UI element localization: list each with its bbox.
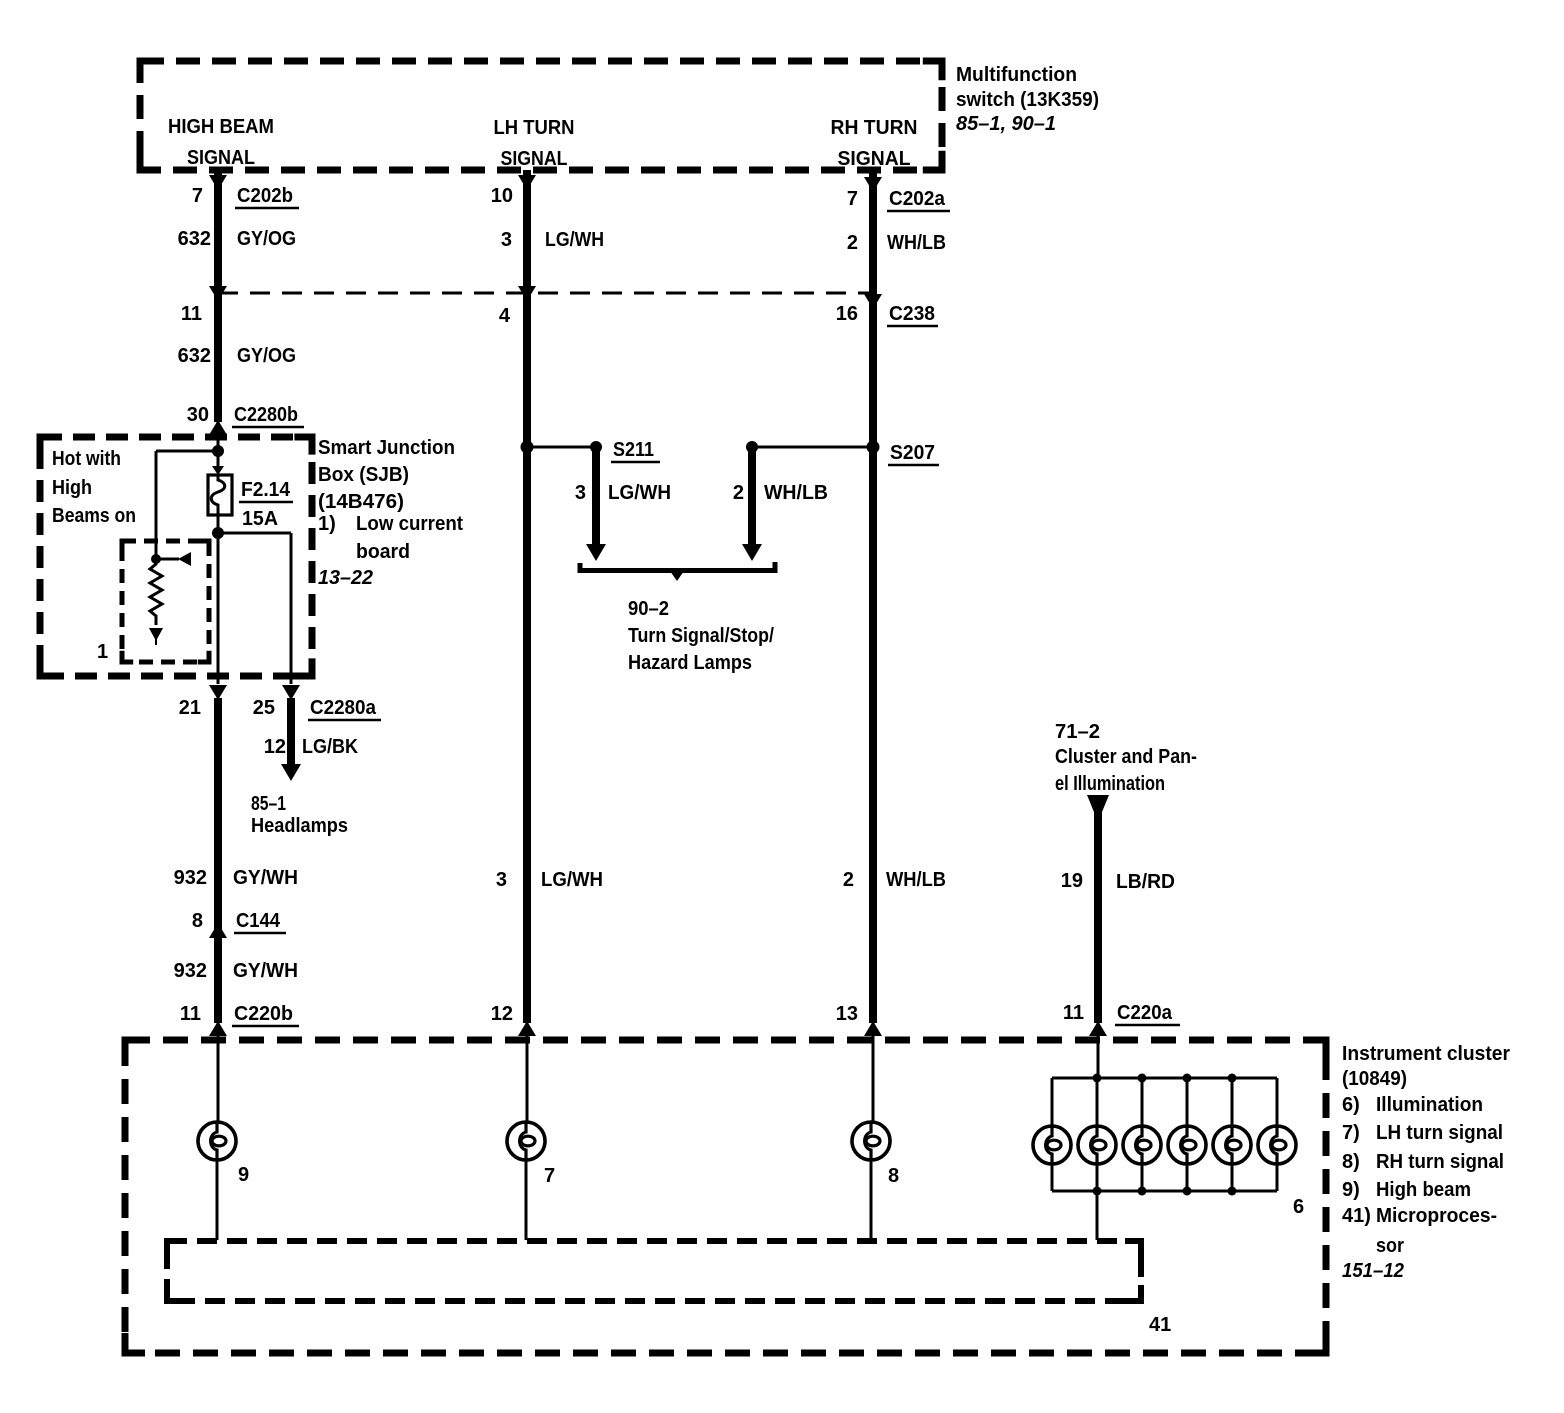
svg-text:GY/WH: GY/WH	[233, 867, 298, 889]
wire from lamp 9 to microprocessor	[216, 1160, 219, 1240]
label 85-1 Headlamps reference	[251, 793, 348, 837]
coil terminal arrow	[149, 628, 163, 645]
svg-text:HIGH BEAM: HIGH BEAM	[168, 116, 274, 138]
svg-text:S211: S211	[613, 439, 654, 461]
connector arrow at switch output pin 7	[209, 175, 227, 190]
label S207	[888, 442, 939, 465]
label F2.14 15A	[239, 479, 293, 530]
label 3 LG/WH	[501, 229, 604, 251]
svg-text:7): 7)	[1342, 1122, 1360, 1144]
svg-text:(10849): (10849)	[1342, 1068, 1407, 1090]
switch contact with triangle	[156, 552, 191, 566]
svg-text:GY/OG: GY/OG	[237, 345, 296, 367]
svg-text:RH turn signal: RH turn signal	[1376, 1151, 1504, 1173]
svg-text:11: 11	[1063, 1002, 1084, 1024]
lamp 6f illumination	[1258, 1126, 1296, 1164]
svg-text:19: 19	[1061, 870, 1083, 892]
svg-text:12: 12	[264, 736, 286, 758]
lamp 6d illumination	[1168, 1126, 1206, 1164]
label pin 8 and connector C144	[192, 910, 286, 933]
svg-text:LH TURN: LH TURN	[494, 117, 575, 139]
label S211	[611, 439, 660, 462]
connector arrow at switch output pin 7 RH	[864, 177, 882, 192]
svg-text:S207: S207	[890, 442, 935, 464]
node S211 splice junction	[521, 441, 603, 454]
lamp 8 RH turn indicator	[852, 1122, 890, 1160]
label HIGH BEAM SIGNAL	[168, 116, 274, 169]
label 12 LG/BK	[264, 736, 359, 758]
svg-text:2: 2	[733, 482, 744, 504]
wire 3 LG/WH to turn signal lamps with arrow	[586, 450, 606, 561]
connector C238 dashed line	[218, 292, 873, 295]
svg-text:High beam: High beam	[1376, 1179, 1471, 1201]
connector arrow wire D into cluster	[1089, 1021, 1107, 1036]
connector arrow SJB pin 25	[282, 685, 300, 700]
wire inside SJB from C2280b to fuse	[217, 420, 220, 470]
svg-text:SIGNAL: SIGNAL	[187, 147, 255, 169]
svg-text:8: 8	[888, 1165, 899, 1187]
label pin 11 and connector C220b	[180, 1003, 299, 1026]
connector arrow wire B at C238	[518, 286, 536, 301]
label RH TURN SIGNAL	[831, 117, 918, 170]
svg-text:2: 2	[847, 232, 858, 254]
label 19 LB/RD	[1061, 870, 1175, 893]
svg-text:LG/BK: LG/BK	[302, 736, 358, 758]
wire 632 GY/OG from switch to C238	[214, 170, 222, 293]
label Hot with High Beams on	[52, 448, 136, 527]
svg-text:C202a: C202a	[889, 188, 946, 210]
svg-text:10: 10	[491, 185, 513, 207]
svg-text:Illumination: Illumination	[1376, 1094, 1483, 1116]
label 2 WH/LB at S207 branch	[733, 482, 828, 504]
wire branch to relay coil	[156, 451, 218, 556]
svg-text:LG/WH: LG/WH	[545, 229, 604, 251]
label LH TURN SIGNAL	[494, 117, 575, 170]
svg-text:15A: 15A	[242, 508, 278, 530]
connector arrow into SJB at C2280b	[209, 420, 227, 435]
svg-text:Cluster and Pan-: Cluster and Pan-	[1055, 746, 1197, 768]
svg-text:High: High	[52, 477, 92, 499]
svg-text:8): 8)	[1342, 1151, 1360, 1173]
connector arrow at switch output pin 10	[518, 175, 536, 190]
label pin 11 and connector C220a	[1063, 1002, 1180, 1025]
svg-text:41: 41	[1149, 1314, 1171, 1336]
wire to RH turn indicator	[872, 1021, 875, 1122]
svg-text:SIGNAL: SIGNAL	[838, 148, 911, 170]
svg-text:7: 7	[847, 188, 858, 210]
svg-text:151–12: 151–12	[1342, 1260, 1404, 1282]
svg-text:13–22: 13–22	[318, 567, 373, 589]
label Instrument cluster legend	[1342, 1043, 1510, 1282]
svg-text:Instrument cluster: Instrument cluster	[1342, 1043, 1510, 1065]
wire 932 GY/WH from C144 to C220b	[214, 923, 222, 1023]
svg-text:30: 30	[187, 404, 209, 426]
wire 2 WH/LB RH turn from switch to cluster	[869, 172, 877, 1023]
svg-text:el Illumination: el Illumination	[1055, 773, 1165, 795]
svg-text:Beams on: Beams on	[52, 505, 136, 527]
relay dashed box (1)	[122, 541, 209, 662]
svg-text:21: 21	[179, 697, 201, 719]
svg-text:Hazard Lamps: Hazard Lamps	[628, 652, 752, 674]
lamp 6e illumination	[1213, 1126, 1251, 1164]
svg-text:C2280a: C2280a	[310, 697, 377, 719]
svg-text:C220a: C220a	[1117, 1002, 1173, 1024]
wire 3 LG/WH LH turn from switch to cluster	[523, 170, 531, 1023]
wire branch to SJB exit 25	[218, 533, 291, 684]
svg-text:WH/LB: WH/LB	[886, 869, 946, 891]
wire 2 WH/LB to turn signal lamps with arrow	[742, 450, 762, 561]
microprocessor 41 dashed box	[167, 1241, 1141, 1301]
lamp 6c illumination	[1123, 1126, 1161, 1164]
label pin 25 and connector C2280a	[253, 697, 381, 720]
connector arrow SJB pin 21	[209, 685, 227, 700]
svg-text:WH/LB: WH/LB	[887, 232, 946, 254]
svg-text:C238: C238	[889, 303, 935, 325]
node junction below fuse	[212, 527, 224, 539]
connector arrow at C144	[209, 923, 227, 938]
connector C202b	[235, 185, 299, 208]
svg-text:sor: sor	[1376, 1235, 1404, 1257]
svg-text:LG/WH: LG/WH	[541, 869, 603, 891]
svg-text:Smart Junction: Smart Junction	[318, 437, 455, 459]
connector arrow wire C at C238	[864, 294, 882, 309]
svg-text:Box (SJB): Box (SJB)	[318, 464, 409, 486]
label pin 16 and connector C238	[836, 303, 938, 326]
svg-text:GY/OG: GY/OG	[237, 228, 296, 250]
wire 632 GY/OG from C238 to C2280b	[214, 293, 222, 422]
svg-text:13: 13	[836, 1003, 858, 1025]
svg-text:90–2: 90–2	[628, 598, 669, 620]
svg-text:16: 16	[836, 303, 858, 325]
svg-text:9: 9	[238, 1164, 249, 1186]
svg-text:F2.14: F2.14	[241, 479, 291, 501]
svg-text:3: 3	[496, 869, 507, 891]
svg-text:2: 2	[843, 869, 854, 891]
svg-text:25: 25	[253, 697, 275, 719]
wire to high beam indicator	[217, 1021, 220, 1122]
connector arrow wire C into cluster	[864, 1021, 882, 1036]
label Multifunction switch (13K359) 85-1, 90-1	[956, 64, 1099, 135]
connector arrow wire B into cluster	[518, 1021, 536, 1036]
wire 12 LG/BK to headlamps with arrow	[281, 698, 301, 781]
svg-text:632: 632	[178, 345, 211, 367]
svg-text:9): 9)	[1342, 1179, 1360, 1201]
illumination lamp bus bottom wire	[1052, 1190, 1277, 1193]
connector arrow at C220b into cluster	[209, 1021, 227, 1036]
node contact junction	[151, 554, 161, 564]
svg-text:85–1: 85–1	[251, 793, 286, 815]
svg-text:632: 632	[178, 228, 211, 250]
svg-text:board: board	[356, 541, 410, 563]
node junction above fuse	[212, 445, 224, 457]
svg-text:85–1, 90–1: 85–1, 90–1	[956, 113, 1056, 135]
wire from lamp 8 to microprocessor	[870, 1160, 873, 1240]
lamp 6b illumination	[1078, 1126, 1116, 1164]
label Smart Junction Box (SJB) (14B476) 1) Low current board 13-22	[318, 437, 463, 589]
svg-text:Hot with: Hot with	[52, 448, 121, 470]
svg-text:C220b: C220b	[234, 1003, 293, 1025]
label 90-2 Turn Signal/Stop/ Hazard Lamps	[628, 598, 774, 674]
svg-text:6): 6)	[1342, 1094, 1360, 1116]
lamp 7 LH turn indicator	[507, 1122, 545, 1160]
resistor relay coil zigzag	[150, 555, 162, 625]
svg-text:71–2: 71–2	[1055, 721, 1100, 743]
label 632 GY/OG	[178, 228, 296, 250]
svg-text:Headlamps: Headlamps	[251, 815, 348, 837]
fuse F2.14 15A	[208, 475, 232, 515]
label 3 LG/WH at S211 branch	[575, 482, 671, 504]
svg-text:1: 1	[97, 641, 108, 663]
svg-text:12: 12	[491, 1003, 513, 1025]
svg-text:932: 932	[174, 960, 207, 982]
wire from lamp 7 to microprocessor	[525, 1160, 528, 1240]
label 2 WH/LB lower	[843, 869, 946, 891]
wire from fuse to SJB exit 21	[217, 515, 220, 684]
label 932 GY/WH second	[174, 960, 298, 982]
svg-text:7: 7	[544, 1165, 555, 1187]
label 71-2 Cluster and Panel Illumination reference	[1055, 721, 1197, 795]
page reference bracket to 90-2 turn signal stop hazard lamps	[580, 562, 775, 581]
svg-text:SIGNAL: SIGNAL	[501, 148, 568, 170]
node junctions on bottom bus	[1093, 1187, 1237, 1196]
illumination lamp bus top wire	[1052, 1077, 1277, 1080]
label pin 30 and connector C2280b	[187, 404, 304, 427]
label 3 LG/WH lower	[496, 869, 603, 891]
label 932 GY/WH	[174, 867, 298, 889]
illumination lamp group 6 vertical wires	[1052, 1078, 1277, 1191]
svg-text:6: 6	[1293, 1196, 1304, 1218]
svg-text:WH/LB: WH/LB	[764, 482, 828, 504]
instrument cluster box (10849) dashed outline	[125, 1040, 1326, 1353]
fuse input arrow	[212, 466, 224, 475]
svg-text:Multifunction: Multifunction	[956, 64, 1077, 86]
label 2 WH/LB	[847, 232, 946, 254]
svg-text:(14B476): (14B476)	[318, 491, 404, 513]
connector arrow wire A at C238	[209, 286, 227, 301]
svg-text:LB/RD: LB/RD	[1116, 871, 1175, 893]
svg-text:LH turn signal: LH turn signal	[1376, 1122, 1503, 1144]
svg-text:Microproces-: Microproces-	[1376, 1205, 1497, 1227]
wire 19 LB/RD from illumination source with arrow	[1087, 795, 1109, 1023]
wire 932 GY/WH from SJB to C144	[214, 698, 222, 925]
svg-text:4: 4	[499, 305, 511, 327]
lamp 9 high beam indicator	[198, 1122, 236, 1160]
svg-text:GY/WH: GY/WH	[233, 960, 298, 982]
node S207 splice junction	[746, 441, 880, 454]
wire from C220a to illumination bus	[1097, 1021, 1100, 1078]
Smart Junction Box (SJB) dashed outline	[40, 437, 312, 676]
wire to LH turn indicator	[526, 1021, 529, 1122]
svg-text:LG/WH: LG/WH	[608, 482, 671, 504]
node junctions on top bus	[1093, 1074, 1237, 1083]
svg-text:932: 932	[174, 867, 207, 889]
svg-text:C144: C144	[236, 910, 281, 932]
svg-text:1): 1)	[318, 513, 336, 535]
svg-text:Low current: Low current	[356, 513, 463, 535]
lamp 6a illumination	[1033, 1126, 1071, 1164]
svg-text:7: 7	[192, 185, 203, 207]
wire from illumination bus to microprocessor	[1096, 1191, 1099, 1240]
svg-text:C202b: C202b	[237, 185, 293, 207]
svg-text:41): 41)	[1342, 1205, 1371, 1227]
svg-text:switch (13K359): switch (13K359)	[956, 89, 1099, 111]
multifunction switch box (13K359)	[140, 61, 942, 170]
label 632 GY/OG second	[178, 345, 296, 367]
svg-text:RH TURN: RH TURN	[831, 117, 918, 139]
svg-text:C2280b: C2280b	[234, 404, 298, 426]
svg-text:3: 3	[575, 482, 586, 504]
svg-text:3: 3	[501, 229, 512, 251]
svg-text:8: 8	[192, 910, 203, 932]
svg-text:11: 11	[181, 303, 202, 325]
svg-text:Turn Signal/Stop/: Turn Signal/Stop/	[628, 625, 774, 647]
connector C202a	[887, 188, 950, 211]
svg-text:11: 11	[180, 1003, 201, 1025]
